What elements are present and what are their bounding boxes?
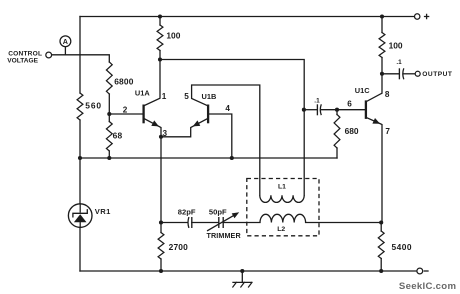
svg-text:2700: 2700 — [169, 242, 189, 252]
junction dot bottom rail / R5400 — [379, 269, 383, 273]
wire capacitor .1 to output terminal — [403, 73, 415, 75]
junction dot bottom rail / ground — [240, 269, 244, 273]
svg-text:6800: 6800 — [114, 76, 134, 86]
resistor 6800 — [106, 62, 112, 94]
resistor 680 — [336, 110, 338, 115]
U1B emitter arrow — [193, 120, 201, 126]
ground symbol — [241, 271, 243, 282]
svg-text:SeekIC.com: SeekIC.com — [399, 281, 456, 292]
junction dot top rail / R100 left — [158, 14, 162, 18]
wire output node to capacitor .1 — [382, 73, 399, 75]
label + (positive) — [424, 14, 429, 19]
dashed enclosure tank circuit box — [247, 179, 319, 236]
wire top positive supply rail — [80, 16, 417, 18]
wire R68 top lead — [108, 114, 110, 122]
wire U1A base from node — [109, 113, 143, 115]
svg-text:4: 4 — [225, 104, 230, 113]
svg-text:U1B: U1B — [202, 92, 217, 101]
transistor U1C base bar — [365, 100, 367, 119]
wire VR1 to bottom rail — [79, 227, 81, 271]
junction dot L2/R5400/U1C emitter — [379, 220, 383, 224]
wire U1A collector node to C.1 branch (y=59.5) — [160, 60, 304, 110]
svg-text:.1: .1 — [396, 59, 402, 66]
transistor U1C emitter lead — [366, 117, 382, 222]
svg-text:1: 1 — [162, 92, 167, 101]
svg-text:6: 6 — [347, 100, 352, 109]
junction dot U1A base node — [107, 112, 111, 116]
label - (negative) — [424, 270, 428, 272]
node A circle — [60, 36, 71, 47]
junction dot bias/left rail — [78, 156, 82, 160]
resistor 5400 — [380, 223, 382, 232]
inductor L1 — [260, 195, 304, 202]
svg-text:VOLTAGE: VOLTAGE — [7, 58, 38, 65]
svg-text:50pF: 50pF — [209, 208, 227, 217]
svg-text:L1: L1 — [278, 184, 286, 191]
svg-text:VR1: VR1 — [95, 207, 111, 216]
junction dot bias/U1B base branch — [230, 156, 234, 160]
wire R560 bottom to bias node — [79, 120, 81, 158]
svg-text:5: 5 — [184, 92, 189, 101]
junction dot output node — [380, 72, 384, 76]
wire 82pF to trimmer 50pF — [192, 222, 218, 224]
junction dot top rail / R100 right — [380, 14, 384, 18]
resistor 2700 — [160, 223, 162, 233]
wire capacitor .1 to U1C base — [321, 109, 366, 111]
resistor 100 left (U1A collector load) — [159, 17, 161, 26]
svg-text:5400: 5400 — [392, 242, 412, 252]
U1C emitter arrow — [372, 118, 380, 124]
capacitor .1 (output coupling) — [398, 68, 400, 79]
wire trimmer to L2 left — [223, 222, 260, 224]
svg-text:680: 680 — [345, 126, 359, 136]
wire control voltage input to R6800 top — [52, 55, 110, 62]
transistor U1B collector lead to L1 left — [192, 85, 260, 195]
transistor U1B base bar — [207, 105, 209, 124]
svg-text:CONTROL: CONTROL — [8, 51, 42, 58]
capacitor 82pF — [187, 217, 190, 228]
transistor U1A base bar — [142, 105, 144, 124]
svg-text:8: 8 — [385, 90, 390, 99]
transistor U1C collector lead — [366, 74, 382, 102]
junction dot shared emitters — [159, 135, 163, 139]
svg-text:100: 100 — [166, 31, 180, 41]
wire bias line (VR1 node) y=158 — [80, 157, 337, 159]
capacitor .1 (U1C base coupling) — [316, 104, 318, 115]
junction dot bottom rail / R2700 — [159, 269, 163, 273]
resistor 100 right (U1C collector load) — [381, 17, 383, 33]
svg-text:U1C: U1C — [355, 86, 370, 95]
svg-text:U1A: U1A — [135, 89, 150, 98]
transistor U1B emitter lead — [161, 118, 208, 137]
junction dot emitter resistor node — [159, 220, 163, 224]
svg-text:TRIMMER: TRIMMER — [207, 231, 242, 240]
resistor 560 — [77, 93, 83, 120]
transistor U1A emitter lead — [144, 118, 161, 137]
svg-text:L2: L2 — [277, 226, 285, 233]
terminal negative supply - — [417, 268, 423, 274]
terminal positive supply + — [415, 14, 420, 19]
svg-text:7: 7 — [385, 127, 390, 136]
terminal OUTPUT — [415, 71, 420, 76]
svg-text:100: 100 — [389, 40, 403, 50]
wire R68 bottom to bias line — [108, 151, 110, 158]
junction dot C.1 / U1C base branch — [302, 108, 306, 112]
junction dot R680 top — [335, 108, 339, 112]
wire C.1 node down to L1 right — [303, 110, 305, 196]
resistor 68 — [106, 122, 112, 152]
trimmer arrow — [208, 216, 233, 231]
junction dot U1A collector node — [158, 57, 162, 61]
svg-text:A: A — [63, 37, 68, 46]
svg-text:.1: .1 — [314, 98, 320, 105]
transistor U1B base lead to bias line — [208, 114, 232, 158]
wire left rail top (supply to R560) — [79, 17, 81, 94]
svg-text:2: 2 — [123, 106, 128, 115]
wire R6800 bottom to U1A base node — [108, 94, 110, 114]
U1A emitter arrow — [151, 120, 159, 126]
wire node to capacitor 82pF — [161, 222, 188, 224]
wire shared emitters down to R2700/C82 node — [160, 137, 162, 223]
svg-text:82pF: 82pF — [178, 208, 196, 217]
wire junction to capacitor .1 — [304, 109, 317, 111]
terminal control voltage input — [46, 52, 52, 58]
zener diode VR1 — [68, 204, 92, 228]
svg-text:560: 560 — [85, 101, 102, 111]
svg-text:68: 68 — [113, 130, 123, 140]
transistor U1A collector lead — [144, 60, 160, 106]
trimmer capacitor 50pF — [218, 217, 220, 228]
junction dot bias/R68 — [107, 156, 111, 160]
wire L2 right to U1C emitter node — [306, 222, 382, 224]
inductor L2 — [260, 214, 306, 222]
wire left rail bias node to VR1 — [79, 158, 81, 204]
wire bottom negative rail — [80, 270, 417, 272]
svg-text:OUTPUT: OUTPUT — [422, 71, 452, 78]
